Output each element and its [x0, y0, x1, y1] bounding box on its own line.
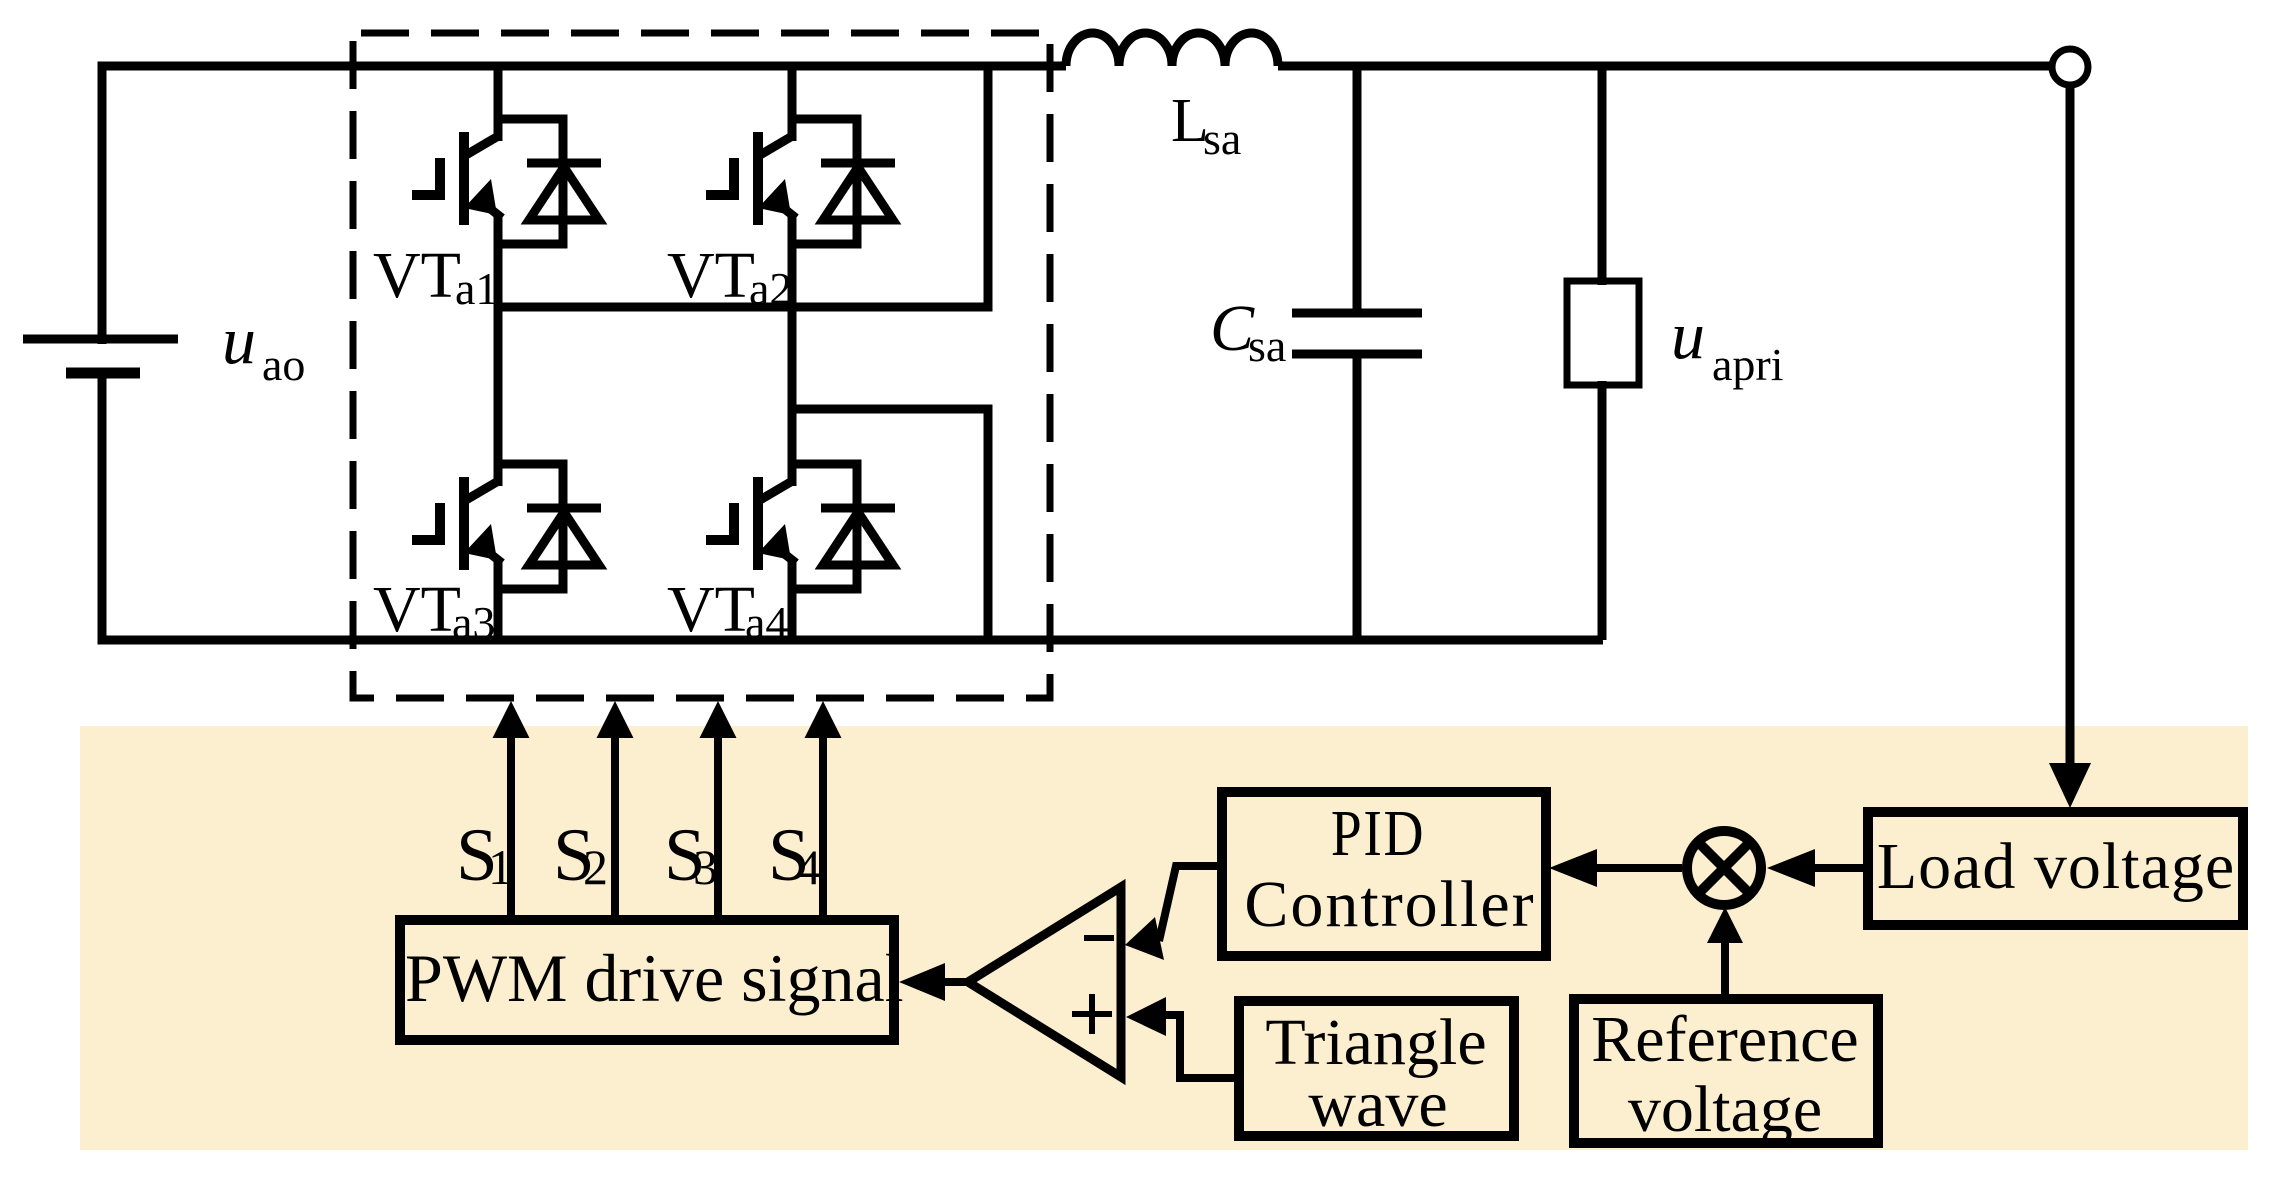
svg-text:VT: VT: [373, 573, 461, 646]
svg-text:a3: a3: [452, 597, 495, 648]
svg-text:sa: sa: [1203, 113, 1241, 164]
svg-text:wave: wave: [1308, 1068, 1447, 1141]
svg-text:u: u: [1671, 297, 1705, 373]
svg-text:voltage: voltage: [1628, 1073, 1822, 1146]
svg-text:Load voltage: Load voltage: [1877, 830, 2235, 903]
svg-text:3: 3: [693, 839, 718, 895]
svg-text:PWM drive signal: PWM drive signal: [405, 940, 904, 1016]
svg-text:VT: VT: [667, 573, 755, 646]
svg-text:a2: a2: [749, 263, 792, 314]
svg-text:PID: PID: [1331, 798, 1425, 871]
svg-text:sa: sa: [1248, 320, 1286, 371]
svg-text:VT: VT: [667, 239, 755, 312]
svg-text:a4: a4: [745, 597, 788, 648]
svg-text:VT: VT: [373, 239, 461, 312]
svg-text:u: u: [222, 302, 256, 378]
svg-text:2: 2: [583, 839, 608, 895]
svg-text:apri: apri: [1712, 339, 1784, 390]
svg-text:ao: ao: [262, 339, 305, 390]
svg-text:Reference: Reference: [1591, 1003, 1858, 1076]
svg-text:Controller: Controller: [1244, 868, 1535, 941]
svg-text:1: 1: [488, 839, 513, 895]
svg-text:4: 4: [796, 839, 821, 895]
svg-text:a1: a1: [455, 263, 498, 314]
